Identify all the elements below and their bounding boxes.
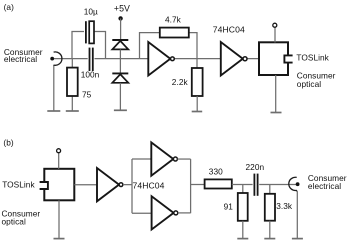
TOSLink transmitter module (a) xyxy=(259,42,288,75)
wire: feedback loop 4.7k xyxy=(140,33,160,59)
op-amp U1A inverter xyxy=(148,42,170,76)
op-amp U2B inverter (b upper) xyxy=(151,142,173,175)
resistor R2 4.7k xyxy=(160,28,189,38)
ground: connector shield xyxy=(47,110,60,112)
wire: output connector shield stem xyxy=(296,191,298,238)
resistor R3 2.2k xyxy=(192,68,203,96)
wire: inverter out riser to parallel pair xyxy=(123,184,132,186)
svg-text:(b): (b) xyxy=(3,138,13,148)
svg-text:100n: 100n xyxy=(81,70,100,80)
ground: below D2 xyxy=(114,109,127,111)
wire: +5V to diode D1 xyxy=(120,18,122,40)
wire: module ground pin xyxy=(275,75,277,113)
resistor R6 3.3k xyxy=(269,185,271,194)
capacitor C3 220n xyxy=(253,180,260,189)
wire: merged out to 330 xyxy=(191,184,205,186)
svg-text:91: 91 xyxy=(224,202,234,212)
resistor R1 75 xyxy=(67,68,78,96)
node: power pin circle (b) xyxy=(57,149,61,153)
svg-text:(a): (a) xyxy=(4,2,14,12)
wire: D1 to signal xyxy=(119,49,121,58)
svg-text:electrical: electrical xyxy=(308,181,341,191)
svg-text:optical: optical xyxy=(2,217,26,227)
ground: below 2.2k xyxy=(192,111,203,113)
wire: inverter1 output to module xyxy=(174,58,259,60)
svg-text:74HC04: 74HC04 xyxy=(133,180,165,190)
wire: module (b) out to inverter xyxy=(74,184,97,186)
resistor R5 91 xyxy=(242,185,244,194)
svg-text:220n: 220n xyxy=(246,162,265,172)
capacitor C2 100n xyxy=(88,54,95,63)
wire: outputs merge xyxy=(177,158,190,160)
optical port notch (b) xyxy=(40,182,48,189)
optical port notch (a) xyxy=(284,55,292,62)
wire: 75 resistor to ground xyxy=(71,96,73,111)
wire: 2.2k to ground xyxy=(196,96,198,112)
ground: below module (b) xyxy=(54,238,65,240)
svg-text:TOSLink: TOSLink xyxy=(2,180,35,190)
svg-text:electrical: electrical xyxy=(4,54,37,64)
svg-text:2.2k: 2.2k xyxy=(172,77,189,87)
wire: 10u bypass loop xyxy=(72,32,106,59)
ground: below 75 resistor xyxy=(66,110,79,112)
ground: below 3.3k xyxy=(264,238,275,240)
wire: junction down to 75 resistor xyxy=(71,59,73,68)
op-amp U2C inverter (b lower) xyxy=(152,196,174,229)
wire: main signal line (a) xyxy=(52,58,148,60)
svg-text:4.7k: 4.7k xyxy=(165,14,182,24)
wire: 3.3k to ground xyxy=(269,221,271,239)
wire: 91 to ground xyxy=(242,221,244,239)
ground: below 91 xyxy=(237,238,248,240)
svg-text:TOSLink: TOSLink xyxy=(296,53,329,63)
ground: below output connector xyxy=(292,238,303,240)
diode D1 (clamp to +5V) xyxy=(112,39,128,41)
node: power pin circle (a) xyxy=(273,23,277,27)
resistor R4 330 xyxy=(205,179,232,188)
connector: consumer electrical input (RCA) xyxy=(50,57,54,61)
svg-text:+5V: +5V xyxy=(114,3,130,13)
svg-text:optical: optical xyxy=(297,79,321,89)
capacitor C1 10u (polarized) xyxy=(84,24,93,40)
wire: module (b) top pin xyxy=(58,153,60,169)
op-amp U1B inverter xyxy=(221,42,243,76)
connector: consumer electrical output (RCA) xyxy=(296,182,300,186)
wire: module top pin xyxy=(274,28,276,43)
wire: signal to D2 xyxy=(119,59,121,74)
svg-text:74HC04: 74HC04 xyxy=(213,24,245,34)
ground: below module (a) xyxy=(271,112,282,114)
svg-text:10µ: 10µ xyxy=(84,6,98,16)
wire: connector shield stem xyxy=(53,65,55,111)
wire: module (b) ground pin xyxy=(58,200,60,238)
diode D2 (clamp to ground) xyxy=(112,72,128,74)
svg-text:3.3k: 3.3k xyxy=(276,201,293,211)
svg-text:330: 330 xyxy=(209,166,223,176)
op-amp U2A inverter (b) xyxy=(97,168,119,201)
TOSLink receiver module (b) xyxy=(44,169,74,201)
wire: 330 to output connector xyxy=(232,184,298,186)
svg-text:75: 75 xyxy=(82,90,92,100)
wire: D2 to ground xyxy=(119,83,121,111)
